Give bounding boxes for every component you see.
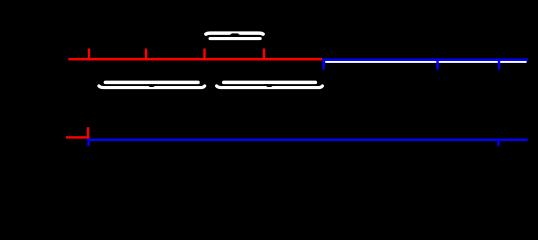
blue tick at x=499, row 1 <box>498 59 500 70</box>
underbrace 1 (white-outlined) below red line, row 1 <box>99 82 205 87</box>
blue tick at x=437.5, row 1 <box>436 59 438 70</box>
white underline below blue line, row 1 <box>325 61 526 63</box>
underbrace 2 (white-outlined) below red line, row 1 <box>217 82 323 87</box>
blue tick at x=88.6, row 2 <box>87 139 89 146</box>
overbrace (white-outlined) over segment between tick 3 and tick 4, row 1 <box>206 33 263 38</box>
red interval line, row 2 <box>66 136 89 138</box>
red tick 2, row 1 <box>145 49 147 61</box>
blue tick at junction x=323.6, row 1 <box>322 59 324 70</box>
red tick 4, row 1 <box>263 49 265 61</box>
red tick 1, row 1 <box>88 49 90 61</box>
blue tick at x=498.5, row 2 <box>497 139 499 146</box>
red tick, row 2 <box>87 127 89 138</box>
blue interval line, row 1 <box>322 59 528 62</box>
red interval line, row 1 <box>68 58 322 61</box>
red tick 3, row 1 <box>203 49 205 61</box>
blue interval line, row 2 <box>87 139 527 141</box>
